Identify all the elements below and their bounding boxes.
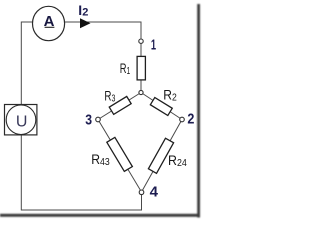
svg-text:3: 3 [85,111,92,128]
svg-text:2: 2 [187,111,194,128]
svg-text:1: 1 [151,37,156,54]
svg-text:U: U [16,114,28,131]
svg-text:4: 4 [150,184,159,201]
